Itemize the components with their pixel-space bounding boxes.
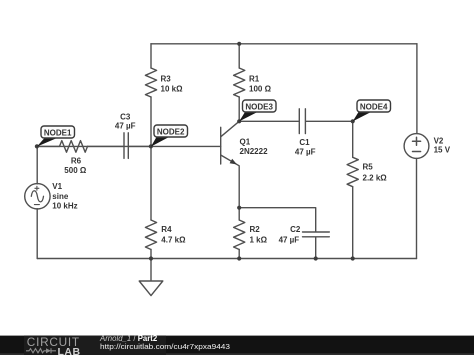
svg-text:sine: sine	[52, 192, 69, 201]
resistor R5	[347, 121, 358, 258]
svg-text:R5: R5	[363, 163, 374, 172]
svg-text:47 µF: 47 µF	[115, 121, 136, 130]
svg-text:NODE4: NODE4	[360, 102, 388, 111]
svg-text:C2: C2	[290, 225, 301, 234]
svg-text:100 Ω: 100 Ω	[249, 85, 272, 94]
svg-text:10 kHz: 10 kHz	[52, 202, 77, 211]
source V1	[25, 146, 50, 258]
label R5 value	[363, 163, 388, 183]
node NODE2	[151, 125, 188, 147]
svg-text:http://circuitlab.com/cu4r7xpx: http://circuitlab.com/cu4r7xpxa9443	[100, 342, 230, 351]
capacitor C2	[239, 208, 329, 259]
label R2 value	[250, 225, 268, 245]
svg-text:NODE2: NODE2	[157, 127, 185, 136]
svg-text:10 kΩ: 10 kΩ	[161, 85, 184, 94]
node NODE3	[239, 100, 276, 121]
svg-text:C1: C1	[299, 138, 310, 147]
resistor R3	[145, 44, 156, 147]
svg-text:4.7 kΩ: 4.7 kΩ	[161, 236, 186, 245]
ground	[139, 259, 163, 296]
resistor R1	[234, 44, 245, 122]
svg-text:1 kΩ: 1 kΩ	[250, 236, 268, 245]
svg-text:R3: R3	[161, 75, 172, 84]
svg-text:V2: V2	[434, 137, 444, 146]
wire mid rail (NODE1 to Q1 base)	[37, 145, 221, 147]
footer bar	[0, 336, 474, 355]
svg-text:47 µF: 47 µF	[279, 236, 300, 245]
label V2 value	[434, 137, 451, 155]
svg-text:R2: R2	[250, 225, 261, 234]
resistor R4	[145, 146, 156, 258]
svg-text:V1: V1	[52, 182, 62, 191]
label R1 value	[249, 75, 272, 94]
capacitor C3	[124, 133, 151, 159]
label R3 value	[161, 75, 184, 94]
svg-text:2.2 kΩ: 2.2 kΩ	[363, 173, 388, 182]
svg-text:NODE3: NODE3	[245, 102, 273, 111]
label V1 value	[52, 182, 77, 211]
label C3 value	[115, 112, 136, 130]
transistor Q1	[221, 121, 240, 207]
svg-text:LAB: LAB	[58, 346, 81, 355]
svg-text:C3: C3	[120, 112, 131, 121]
source V2	[404, 44, 429, 259]
svg-text:NODE1: NODE1	[44, 128, 72, 137]
label R4 value	[161, 225, 186, 245]
node junction dots	[35, 42, 355, 261]
wire bottom rail	[37, 258, 416, 260]
svg-text:15 V: 15 V	[434, 146, 451, 155]
svg-text:R1: R1	[249, 75, 260, 84]
label Q1 value	[240, 137, 269, 156]
label C2 value	[279, 225, 301, 245]
resistor R6	[37, 141, 124, 153]
svg-text:R4: R4	[161, 225, 172, 234]
label C1 value	[295, 138, 316, 156]
resistor R2	[234, 208, 245, 259]
svg-text:2N2222: 2N2222	[240, 147, 269, 156]
node NODE1	[37, 126, 75, 147]
svg-text:Q1: Q1	[240, 137, 251, 146]
svg-text:500 Ω: 500 Ω	[64, 166, 87, 175]
svg-text:47 µF: 47 µF	[295, 148, 316, 157]
wire top rail	[151, 43, 417, 45]
node NODE4	[353, 100, 391, 121]
svg-text:R6: R6	[71, 156, 82, 165]
footer logo resistor+diode squiggle	[26, 348, 56, 353]
label R6 value	[64, 156, 87, 175]
capacitor C1	[239, 109, 353, 134]
